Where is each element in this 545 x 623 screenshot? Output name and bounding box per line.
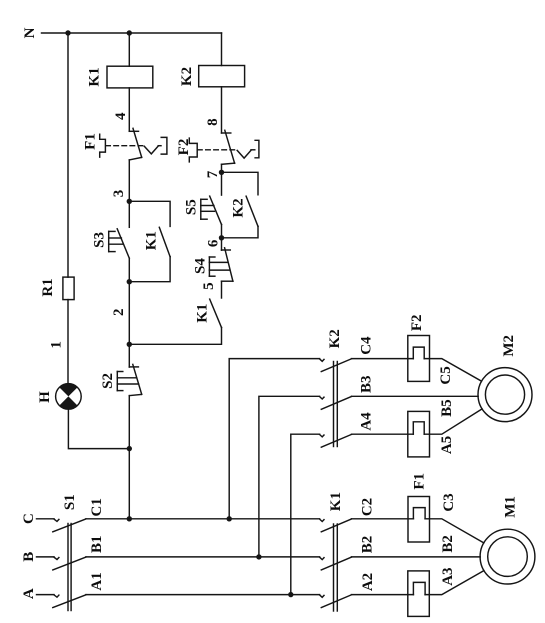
svg-text:C: C [21, 513, 37, 524]
wire C2 [352, 518, 414, 520]
heater F2 pole A [408, 411, 430, 457]
phase C label [21, 513, 37, 524]
svg-text:K2: K2 [179, 67, 195, 86]
contactor K2 main pole A [320, 434, 352, 447]
svg-text:M2: M2 [501, 335, 517, 357]
wire B1 rail [86, 556, 320, 558]
svg-text:S2: S2 [100, 373, 116, 389]
switch S1 linkage [67, 524, 69, 611]
wire R1 to lamp [67, 300, 69, 384]
pushbutton S2 (NC stop) [117, 344, 141, 448]
svg-text:7: 7 [205, 170, 221, 178]
wire A5 [424, 409, 482, 434]
pushbutton S3 [109, 201, 130, 281]
wire N to K1 coil [128, 33, 130, 66]
wire F1 to node 3 [128, 160, 130, 201]
label 2 [111, 309, 127, 317]
label C4 [358, 336, 374, 355]
label C1 [89, 498, 105, 516]
svg-text:A4: A4 [358, 412, 374, 431]
node 1 junction [127, 446, 132, 451]
svg-text:B1: B1 [89, 536, 105, 554]
wire C3 [425, 519, 484, 543]
heater F1 pole A [408, 571, 430, 617]
label M2 [501, 335, 517, 357]
label C2 [360, 498, 376, 516]
label A4 [358, 412, 374, 431]
svg-text:K1: K1 [87, 67, 103, 86]
svg-text:B2: B2 [360, 536, 376, 554]
lamp H [56, 384, 82, 410]
svg-text:A2: A2 [360, 573, 376, 591]
contact K1 interlock [129, 299, 221, 344]
phase A label [21, 588, 37, 599]
svg-text:A: A [21, 588, 37, 599]
svg-text:K1: K1 [194, 304, 210, 323]
svg-text:S4: S4 [192, 258, 208, 274]
svg-text:N: N [22, 27, 38, 38]
svg-text:F2: F2 [409, 314, 425, 331]
label R1 [40, 278, 56, 296]
label K2 [327, 329, 343, 348]
wire C1 to K2 pole C [229, 359, 319, 519]
wire A1 rail [86, 594, 320, 596]
svg-text:K2: K2 [231, 198, 247, 217]
svg-text:5: 5 [201, 282, 217, 290]
node 3 [111, 190, 127, 198]
svg-text:S5: S5 [183, 199, 199, 215]
label S4 [192, 258, 208, 274]
wire K2 coil to F2 [221, 87, 223, 133]
wire A3 [425, 571, 484, 595]
svg-text:F1: F1 [83, 133, 99, 150]
heater F1 pole C [408, 497, 430, 543]
wire node to node 2 [128, 282, 130, 345]
svg-text:K2: K2 [327, 329, 343, 348]
label B2 [360, 536, 376, 554]
svg-text:8: 8 [205, 118, 221, 126]
svg-text:S1: S1 [62, 494, 78, 510]
motor M2 [478, 368, 532, 422]
svg-text:B: B [21, 552, 37, 562]
wire K1 coil to F1 [128, 88, 130, 131]
resistor R1 [63, 277, 74, 300]
label K1 [328, 492, 344, 511]
label A1 [89, 572, 105, 590]
label H [37, 391, 53, 403]
svg-text:H: H [37, 391, 53, 403]
svg-text:A5: A5 [439, 436, 455, 454]
wire B2 [352, 556, 481, 558]
svg-text:2: 2 [111, 309, 127, 317]
svg-text:C3: C3 [441, 493, 457, 511]
svg-text:C5: C5 [438, 366, 454, 384]
contact K2 auxiliary [222, 172, 259, 238]
label S2 [100, 373, 116, 389]
svg-text:S3: S3 [91, 232, 107, 248]
svg-text:6: 6 [206, 239, 222, 247]
svg-text:3: 3 [111, 190, 127, 198]
switch S1 pole A [37, 595, 86, 608]
svg-text:A1: A1 [89, 572, 105, 590]
wire A1 to K2 pole A [291, 434, 320, 594]
svg-text:M1: M1 [502, 496, 518, 518]
node junction N-main [127, 30, 132, 35]
label C5 [438, 366, 454, 384]
contactor K2 main pole C [320, 359, 352, 372]
contactor K2 linkage [333, 362, 335, 447]
svg-text:F1: F1 [411, 473, 427, 490]
svg-text:K1: K1 [143, 231, 159, 250]
label B1 [89, 536, 105, 554]
wire C4 [352, 358, 414, 360]
node 1 label [48, 341, 64, 349]
node N label [22, 27, 38, 38]
node 8 label [205, 118, 221, 126]
svg-text:C4: C4 [358, 336, 374, 355]
contactor K1 main pole B [320, 557, 352, 570]
motor M1 [480, 529, 535, 584]
label F1 [411, 473, 427, 490]
label F2 [409, 314, 425, 331]
svg-text:C1: C1 [89, 498, 105, 516]
thermal contact F1 [100, 128, 167, 160]
wire A4 [352, 433, 414, 435]
svg-text:4: 4 [113, 112, 129, 120]
wire C5 [424, 359, 481, 382]
svg-text:C2: C2 [360, 498, 376, 516]
label S1 [62, 494, 78, 510]
coil K2 [199, 66, 245, 87]
node junction N-lamp [65, 30, 70, 35]
label K1 [194, 304, 210, 323]
label B3 [358, 375, 374, 393]
wire B3 to motor [352, 395, 479, 397]
node 6 [206, 239, 222, 247]
contactor K1 main pole C [320, 519, 352, 532]
label B2 [440, 535, 456, 553]
heater F2 pole C [408, 336, 430, 382]
pushbutton S4 (NC) [209, 238, 233, 298]
wire F2 to node 7 [221, 164, 223, 172]
svg-text:B3: B3 [358, 375, 374, 393]
thermal contact F2 [189, 130, 259, 164]
label K2 [179, 67, 195, 86]
node 5 label [201, 282, 217, 290]
wire lamp branch from N [67, 33, 69, 277]
svg-text:B2: B2 [440, 535, 456, 553]
node below S3 [127, 279, 132, 284]
wire C1 rail [86, 518, 320, 520]
wire A2 to heater [352, 594, 414, 596]
node 2 junction [127, 342, 132, 347]
coil K1 [107, 66, 153, 88]
wire N rail [42, 32, 222, 34]
svg-text:1: 1 [48, 341, 64, 349]
svg-text:A3: A3 [440, 567, 456, 585]
phase B label [21, 552, 37, 562]
node 7 [205, 170, 221, 178]
label F2 [176, 139, 192, 156]
contactor K1 main pole A [320, 595, 352, 608]
switch S1 pole B [37, 557, 86, 570]
wire to C1 rail [128, 449, 130, 519]
contactor K1 linkage [333, 524, 335, 611]
svg-text:K1: K1 [328, 492, 344, 511]
label K2 [231, 198, 247, 217]
label A3 [440, 567, 456, 585]
label S5 [183, 199, 199, 215]
wire B1 to K2 pole B [259, 396, 320, 557]
contactor K2 main pole B [320, 397, 352, 410]
label B5 [439, 399, 455, 417]
label K1 [143, 231, 159, 250]
wire N to K2 coil [221, 33, 223, 66]
node 4 label [113, 112, 129, 120]
label A5 [439, 436, 455, 454]
label S3 [91, 232, 107, 248]
label C3 [441, 493, 457, 511]
label M1 [502, 496, 518, 518]
label K1 [87, 67, 103, 86]
svg-text:R1: R1 [40, 278, 56, 296]
label A2 [360, 573, 376, 591]
svg-text:F2: F2 [176, 139, 192, 156]
node A1 junction K2 feed [288, 592, 293, 597]
node C1 junction K2 feed [227, 516, 232, 521]
label F1 [83, 133, 99, 150]
svg-text:B5: B5 [439, 399, 455, 417]
node B1 junction K2 feed [256, 554, 261, 559]
wire lamp to junction [68, 409, 129, 448]
contact K1 self-holding [129, 201, 170, 281]
pushbutton S5 [201, 172, 222, 238]
switch S1 pole C [37, 519, 86, 532]
